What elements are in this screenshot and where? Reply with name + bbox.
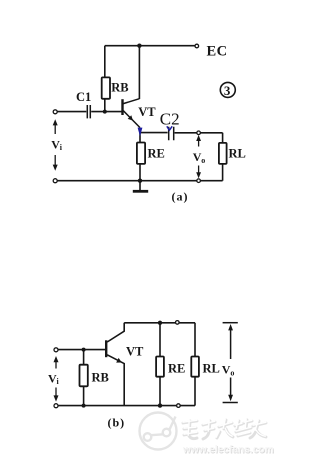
- svg-text:RB: RB: [111, 81, 128, 95]
- svg-text:o: o: [230, 369, 234, 378]
- svg-text:(a): (a): [172, 190, 189, 204]
- svg-text:www.elecfans.com: www.elecfans.com: [182, 445, 274, 456]
- svg-text:(b): (b): [108, 416, 126, 430]
- svg-text:VT: VT: [126, 345, 144, 359]
- svg-text:RL: RL: [203, 362, 220, 376]
- svg-text:RL: RL: [229, 147, 246, 161]
- svg-text:C2: C2: [160, 110, 180, 129]
- svg-text:RB: RB: [92, 371, 109, 385]
- svg-text:VT: VT: [138, 105, 156, 119]
- svg-text:3: 3: [224, 83, 231, 98]
- svg-text:EC: EC: [207, 44, 228, 60]
- svg-text:o: o: [201, 156, 205, 165]
- svg-text:C1: C1: [76, 90, 91, 104]
- svg-text:RE: RE: [148, 147, 165, 161]
- svg-text:RE: RE: [168, 362, 185, 376]
